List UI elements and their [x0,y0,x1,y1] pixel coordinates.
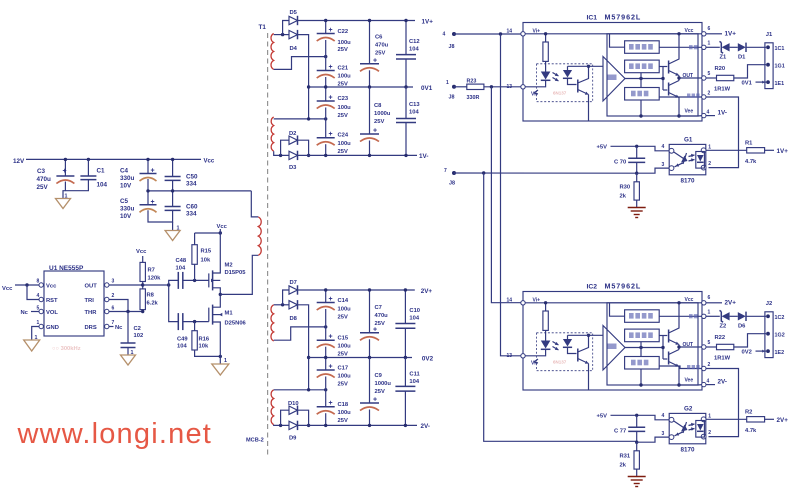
node inner box [607,34,698,116]
svg-text:R22: R22 [715,335,726,341]
resistor opto LED feed [545,34,547,42]
diode D4 [289,30,298,38]
pin 5 OUT of IC1 [702,76,706,80]
svg-text:6N137: 6N137 [553,360,567,365]
svg-text:1: 1 [708,145,711,151]
svg-text:1: 1 [35,335,38,341]
pin 2 TRI [105,297,109,301]
svg-text:Vcc: Vcc [685,28,694,34]
capacitor C 77 [636,415,638,427]
svg-text:0V2: 0V2 [422,355,434,362]
svg-text:+5V: +5V [597,145,608,151]
wire C4 top lead [147,159,149,173]
svg-text:C23: C23 [338,96,349,102]
wire winding2 top to C23/C24 midpoint [274,118,326,120]
transistor M2 D15P05 [208,273,210,287]
capacitor C5 [140,204,157,206]
capacitor C9 [369,358,371,404]
svg-text:4: 4 [707,379,710,385]
wire TRI pin2 jog down [109,300,128,312]
svg-text:13: 13 [507,353,513,359]
wire winding4 bottom to D10/D9 [274,424,289,427]
svg-text:1: 1 [708,414,711,420]
svg-text:D25N06: D25N06 [225,321,247,327]
svg-text:25V: 25V [338,418,348,424]
optocoupler dashed box [537,64,593,102]
zener Z1 [706,46,720,48]
wire cap chain verticals bottom bank [325,290,327,303]
wire 0V1 rail [309,86,413,88]
svg-text:J8: J8 [449,95,455,101]
op-amp comparator triangle [603,57,625,102]
svg-text:+: + [329,400,333,407]
capacitor C18 [317,406,335,408]
diode opto receiver [696,152,705,169]
capacitor C 70 [636,146,638,158]
connector J8 pin 4 [452,32,456,36]
pin 6 Vcc of IC1 [702,32,706,36]
svg-text:6N137: 6N137 [553,91,567,96]
svg-text:M2: M2 [225,263,233,269]
ground earth below R31 [636,469,638,476]
svg-text:C14: C14 [338,298,349,304]
svg-text:1: 1 [177,226,180,232]
svg-text:25V: 25V [338,382,348,388]
transistor opto NPN [577,349,579,362]
ground at 555 GND pin [32,327,39,341]
svg-text:3: 3 [662,431,665,437]
wire Vee rail to pin4 [679,384,702,386]
svg-text:Vcc: Vcc [217,224,228,230]
svg-text:+: + [329,64,333,71]
block drive logic 2 [625,60,660,73]
svg-text:OUT: OUT [683,73,694,79]
wire winding4 top to C17/C18 midpoint [274,389,326,391]
svg-text:J8: J8 [449,181,455,187]
svg-text:1: 1 [65,194,68,200]
svg-text:+: + [63,168,67,175]
svg-text:3: 3 [112,279,115,285]
inductor secondary winding 4 [271,390,274,425]
svg-text:2: 2 [708,161,711,167]
svg-text:1G1: 1G1 [775,63,785,69]
capacitor C8 [369,87,371,134]
wire R23 branch down to IC2 pin14 [491,87,520,303]
resistor R1 pull-up [706,149,747,151]
svg-text:4: 4 [662,144,665,150]
inductor secondary winding 2 [271,117,274,151]
wire J8 pin1 to R23 [454,86,467,88]
svg-text:25V: 25V [338,149,348,155]
wire mid rail C4/C50 to C5/C60 [147,179,149,205]
diode opto photodiode [567,66,569,70]
svg-text:1000u: 1000u [375,381,392,387]
wire R15 leads [194,233,196,245]
pin 14 of IC1 [521,32,525,36]
svg-text:1G2: 1G2 [775,332,785,338]
transistor opto NPN [577,80,579,93]
wire output to pin5 [679,77,702,79]
diode opto LED [545,61,547,71]
wire pin2 down to opto G1 [706,97,739,168]
svg-text:C49: C49 [177,337,188,343]
pin 1 of IC1 [702,45,706,49]
pin 14 of IC2 [521,301,525,305]
svg-text:GND: GND [46,325,59,331]
svg-text:2V+: 2V+ [777,417,789,424]
svg-text:+: + [329,95,333,102]
svg-text:10V: 10V [120,183,132,190]
svg-text:6.2k: 6.2k [147,301,159,307]
wire R23 to IC1 pin13 [484,86,521,88]
svg-text:330u: 330u [120,175,135,182]
svg-text:C15: C15 [338,336,349,342]
svg-text:10V: 10V [120,213,132,220]
svg-text:C18: C18 [338,402,349,408]
svg-text:1: 1 [446,80,449,86]
svg-text:104: 104 [409,47,419,53]
wire C48 to gate junction [183,279,209,281]
svg-text:470u: 470u [375,43,389,49]
wire D10 cathode to 2V- rail [298,410,309,425]
wire winding1 top to D4/D5 [274,34,289,36]
svg-text:C1: C1 [97,168,106,175]
svg-text:D7: D7 [290,280,297,286]
svg-text:D9: D9 [289,436,297,442]
svg-text:100u: 100u [338,74,352,80]
wire gate resistor to connector [734,334,766,347]
svg-text:+5V: +5V [597,414,608,420]
pin 1 GND [39,324,43,328]
svg-text:C4: C4 [120,168,129,175]
svg-text:0V1: 0V1 [742,81,753,87]
svg-text:13: 13 [507,84,513,90]
wire light arrows [553,73,559,77]
wire node to opto pin3 [637,168,669,173]
svg-text:1000u: 1000u [374,111,391,117]
svg-text:TRI: TRI [85,298,95,304]
pin 4 RST [39,297,43,301]
diode opto LED diagonal [674,152,684,159]
capacitor C48 [177,272,179,289]
wire internal top rail [525,33,702,35]
svg-text:25V: 25V [338,352,348,358]
diode opto LED diagonal [674,421,684,428]
wire Vcc to pin8 and pin4 [15,284,39,286]
capacitor C12 [405,21,407,55]
wire block1 supply [610,34,625,47]
pin 13 of IC2 [521,354,525,358]
wire block1 to pin1 [659,46,702,48]
transformer T1 core dashed line [267,33,269,455]
wire J8 pin7 to G1 node [454,172,637,174]
svg-text:OUT: OUT [683,342,694,348]
capacitor C23 [317,100,335,102]
pin 5 VOL [39,309,43,313]
svg-text:6: 6 [112,306,115,312]
connector J2 [765,312,773,358]
svg-text:2V+: 2V+ [725,300,737,307]
wire D4 cathode down to 0V1 [298,35,309,119]
resistor R31 [636,442,638,451]
svg-text:334: 334 [186,181,197,188]
resistor R22 gate [706,346,717,348]
svg-text:R1: R1 [745,140,753,146]
svg-text:1V-: 1V- [718,110,727,117]
svg-text:25V: 25V [338,113,348,119]
svg-text:M57962L: M57962L [605,282,642,291]
svg-text:1: 1 [708,40,711,46]
ground below C2 [127,348,129,356]
wire block1 to pin1 [659,315,702,317]
block protect logic 3 [625,88,660,101]
svg-text:2: 2 [708,430,711,436]
svg-text:C8: C8 [374,103,382,109]
svg-text:D15P05: D15P05 [225,270,247,276]
svg-text:C50: C50 [186,174,198,181]
svg-text:C5: C5 [120,198,129,205]
wire amp output [625,78,663,80]
svg-text:100u: 100u [338,410,352,416]
wire C1 top lead [87,159,89,176]
svg-text:Vcc: Vcc [685,297,694,303]
svg-text:5: 5 [708,71,711,77]
resistor R7 [142,256,144,262]
wire THR pin6 [109,311,143,313]
svg-text:M1: M1 [225,311,234,317]
svg-text:2V+: 2V+ [421,288,433,295]
svg-text:1V-: 1V- [419,153,428,160]
svg-text:D10: D10 [288,401,299,407]
svg-text:J8: J8 [449,44,455,50]
svg-text:VOL: VOL [46,310,58,316]
wire light arrows [553,342,559,346]
svg-text:Z2: Z2 [720,324,727,330]
wire C50 top lead [172,159,174,176]
svg-text:330R: 330R [467,95,480,101]
svg-text:4: 4 [443,32,446,38]
svg-text:2k: 2k [620,463,627,469]
svg-text:D6: D6 [738,324,746,330]
svg-text:R23: R23 [467,79,477,85]
wire C5/C60 bottom rail [148,210,173,222]
svg-text:C60: C60 [186,204,198,211]
ground below C5/C60 [172,222,174,231]
svg-text:T1: T1 [259,24,267,31]
svg-text:Z1: Z1 [720,55,728,61]
wire photodiode rail to amp input [568,334,604,336]
svg-text:0V2: 0V2 [742,350,752,356]
node M1/M2 drain junction [219,293,222,296]
wire D2 cathode to 1V- rail [298,140,309,155]
wire pin7 branch down to G2 node [484,173,637,441]
svg-text:10k: 10k [199,344,209,350]
svg-text:Vcc: Vcc [136,249,147,255]
svg-text:334: 334 [186,211,197,218]
svg-text:Nc: Nc [115,325,123,331]
svg-text:Vcc: Vcc [204,159,215,165]
capacitor C50 [165,176,181,178]
svg-text:R30: R30 [620,185,631,191]
svg-text:C10: C10 [409,308,420,314]
svg-text:25V: 25V [338,82,348,88]
op-amp IC2 driver box [523,292,702,391]
op-amp IC1 driver box [523,23,702,122]
block timing logic 1 [625,41,660,54]
capacitor C2 [121,342,136,344]
resistor R8 [140,289,145,310]
wire J8 pin4 to IC1 pin14 [454,33,521,35]
svg-text:25V: 25V [338,47,348,53]
svg-text:470u: 470u [375,313,389,319]
svg-text:330u: 330u [120,206,135,213]
ground below M1 [219,356,221,364]
svg-text:1C2: 1C2 [775,315,785,321]
svg-text:D5: D5 [290,10,298,16]
pin 7 DRS [105,324,109,328]
svg-text:+: + [373,326,377,333]
svg-text:14: 14 [507,28,513,34]
svg-text:MCB-2: MCB-2 [246,438,264,444]
svg-text:8170: 8170 [681,447,696,454]
svg-text:2k: 2k [620,194,627,200]
svg-text:G2: G2 [684,406,693,413]
svg-text:8: 8 [37,279,40,285]
capacitor C24 [317,137,335,139]
wire R8 bottom to THR wire [142,310,144,312]
svg-text:1E2: 1E2 [775,350,785,356]
svg-text:+: + [329,334,333,341]
capacitor C7 [369,290,371,333]
resistor R23 [467,84,484,89]
wire D8 cathode down to 0V2 [298,305,309,390]
svg-text:2: 2 [112,293,115,299]
svg-text:1E1: 1E1 [775,81,785,87]
resistor opto LED feed [545,303,547,311]
svg-text:DRS: DRS [85,325,97,331]
svg-text:C17: C17 [338,366,349,372]
svg-text:100u: 100u [338,40,352,46]
svg-text:Vee: Vee [685,378,694,384]
node inner box [607,303,698,385]
svg-text:25V: 25V [375,389,385,395]
svg-text:104: 104 [409,110,419,116]
svg-text:C22: C22 [338,29,349,35]
svg-text:C7: C7 [375,305,382,311]
svg-text:7: 7 [444,168,447,174]
svg-text:D8: D8 [290,316,298,322]
svg-text:0V1: 0V1 [421,85,433,92]
svg-text:1R1W: 1R1W [714,87,731,93]
diode opto receiver [696,421,705,438]
capacitor C4 [140,173,157,175]
capacitor C15 [317,339,335,341]
capacitor C22 [317,33,335,35]
ground earth below R30 [636,200,638,207]
pin 4 Vee of IC1 [702,113,706,117]
svg-text:14: 14 [507,297,513,303]
svg-text:R16: R16 [199,337,210,343]
wire pin2 down to opto G2 [706,369,739,437]
svg-text:104: 104 [177,344,187,350]
svg-text:102: 102 [134,333,144,339]
svg-text:25V: 25V [375,321,385,327]
inductor secondary winding 1 [271,34,274,70]
node Nc at DRS [109,326,114,328]
svg-text:5: 5 [37,306,40,312]
svg-text:4: 4 [707,110,710,116]
svg-text:U1 NE555P: U1 NE555P [49,265,84,272]
wire block1 supply [610,303,625,316]
diode D9 [289,421,298,429]
pin 1 of IC2 [702,314,706,318]
svg-text:1V+: 1V+ [422,19,434,26]
svg-text:2V-: 2V- [421,423,430,430]
wire winding1 bottom to C22/C21 midpoint [274,57,326,70]
svg-text:C 77: C 77 [614,429,626,435]
svg-text:+: + [373,128,377,135]
diode D10 [289,406,298,414]
svg-text:120k: 120k [148,276,162,282]
wire C3 bottom to C1 bottom [65,180,88,191]
diode D2 [289,136,298,144]
wire drain junction to primary [220,255,258,294]
svg-text:1V+: 1V+ [777,148,789,155]
svg-text:25V: 25V [37,184,49,191]
svg-text:C6: C6 [375,35,383,41]
svg-text:100u: 100u [338,344,352,350]
svg-text:+: + [329,27,333,34]
wire R16 bottom to source [195,350,221,356]
svg-text:R2: R2 [745,409,752,415]
capacitor C11 [404,358,406,387]
svg-text:4.7k: 4.7k [745,159,757,165]
wire internal top rail [525,302,702,304]
svg-text:R15: R15 [201,249,212,255]
wire node to opto pin3 [637,437,669,442]
transistor M1 D25N06 [208,308,210,322]
svg-text:RST: RST [46,298,58,304]
svg-text:100u: 100u [338,141,352,147]
resistor R16 [194,322,196,331]
svg-text:12V: 12V [13,158,25,165]
wire 2V+ rail [298,289,415,291]
svg-text:C48: C48 [176,258,187,264]
diode D5 [289,16,298,24]
transistor output lower [668,352,670,365]
svg-text:THR: THR [85,310,98,316]
svg-text:2V-: 2V- [718,379,727,386]
transistor output upper [668,61,670,74]
block drive logic 2 [625,329,660,342]
svg-text:+: + [329,364,333,371]
capacitor C10 [404,290,406,324]
wire rail2 to primary top [251,191,258,217]
svg-text:D3: D3 [289,165,297,171]
pin 8 Vcc [39,283,43,287]
wire Vcc rail of mosfets [195,232,221,234]
svg-text:+: + [151,199,155,206]
svg-text:1R1W: 1R1W [714,356,731,362]
svg-text:4: 4 [37,293,40,299]
svg-text:D1: D1 [738,55,746,61]
pin 5 OUT of IC2 [702,345,706,349]
transistor output lower [668,83,670,96]
svg-text:Vcc: Vcc [46,284,57,290]
svg-text:104: 104 [176,266,186,272]
svg-text:R7: R7 [148,268,155,274]
svg-text:Nc: Nc [21,310,29,316]
